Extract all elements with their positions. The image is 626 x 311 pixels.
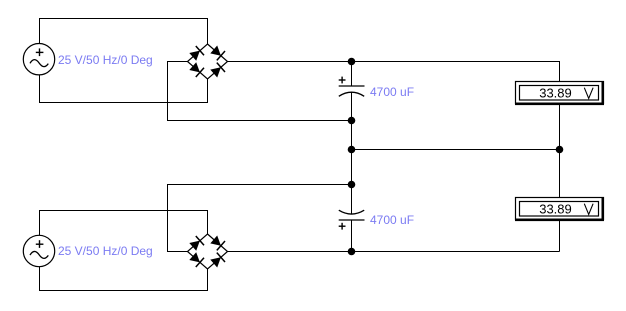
svg-text:33.89: 33.89 [539,85,572,100]
svg-text:25 V/50 Hz/0 Deg: 25 V/50 Hz/0 Deg [58,53,153,67]
svg-text:25 V/50 Hz/0 Deg: 25 V/50 Hz/0 Deg [58,244,153,258]
svg-text:33.89: 33.89 [539,201,572,216]
svg-text:4700 uF: 4700 uF [370,213,414,227]
svg-text:4700 uF: 4700 uF [370,85,414,99]
